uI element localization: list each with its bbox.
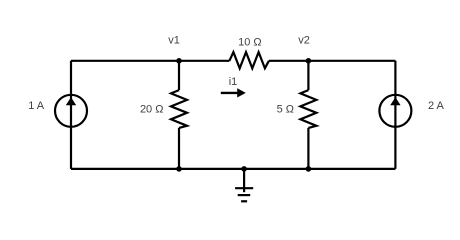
junction dot ground node	[241, 166, 247, 172]
junction dot v2 bottom	[306, 166, 312, 172]
svg-text:v2: v2	[298, 34, 310, 46]
wire right branch (395.4,60.8)-(395.4,168.9)	[394, 61, 396, 169]
junction dot v1 bottom	[176, 166, 182, 172]
ground stem	[243, 169, 245, 192]
current source I2 circle	[379, 95, 411, 127]
node v1 junction dot	[176, 58, 182, 64]
wire v2 branch upper (308.4,60.8)-(308.4,90.1)	[307, 61, 309, 90]
resistor R3 5 Ω (vertical zigzag at v2)	[300, 90, 316, 128]
node v2 junction dot	[306, 58, 312, 64]
wire top rail left (71,60.8)-(229.4,60.8)	[71, 60, 229, 62]
current source I1 circle	[55, 95, 87, 127]
ground bar 3	[241, 200, 247, 202]
svg-text:5 Ω: 5 Ω	[277, 103, 294, 115]
resistor R1 10 Ω (horizontal zigzag on top rail)	[229, 52, 269, 68]
current source I1 arrowhead (up)	[66, 97, 76, 105]
ground bar 1	[235, 187, 253, 189]
ground bar 2	[238, 194, 251, 196]
svg-text:2 A: 2 A	[428, 100, 445, 112]
wire v2 branch lower (308.4,127.9)-(308.4,168.9)	[307, 128, 309, 169]
svg-text:v1: v1	[168, 34, 180, 46]
resistor R2 20 Ω (vertical zigzag at v1)	[171, 90, 187, 128]
svg-text:10 Ω: 10 Ω	[238, 37, 262, 49]
wire v1 branch upper (179,60.8)-(179,90.1)	[178, 61, 180, 90]
svg-text:i1: i1	[229, 76, 238, 88]
svg-text:1 A: 1 A	[28, 100, 45, 112]
wire left branch (71,60.8)-(71,168.9)	[70, 61, 72, 169]
current source I2 arrowhead (up)	[390, 97, 400, 105]
svg-text:20 Ω: 20 Ω	[140, 103, 164, 115]
wire top rail right (268.9,60.8)-(395.4,60.8)	[269, 60, 396, 62]
wire v1 branch lower (179,127.9)-(179,168.9)	[178, 128, 180, 169]
wire bottom rail (71,168.9)-(395.4,168.9)	[71, 168, 395, 170]
current annotation i1 arrow (right)	[221, 92, 239, 94]
